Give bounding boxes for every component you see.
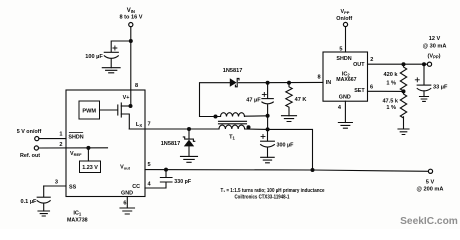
svg-text:5: 5 bbox=[148, 162, 151, 168]
label 47uF bbox=[246, 97, 261, 103]
label 5V output bbox=[417, 179, 444, 192]
svg-text:2: 2 bbox=[59, 142, 62, 148]
label GND IC2 bbox=[339, 94, 351, 100]
junction LX/diode bbox=[187, 127, 191, 131]
svg-text:On/off: On/off bbox=[336, 16, 352, 22]
svg-text:7: 7 bbox=[148, 122, 151, 128]
transformer T1 primary winding bbox=[219, 125, 245, 129]
ground below 300uF bbox=[261, 157, 275, 163]
svg-text:5 V on/off: 5 V on/off bbox=[17, 129, 42, 135]
junction rail/330pF bbox=[164, 168, 168, 172]
label 330pF bbox=[174, 179, 192, 185]
wire to 1.23V box bbox=[87, 148, 89, 162]
node 5V on/off terminal bbox=[35, 137, 39, 141]
pin 8 label IC1 bbox=[135, 83, 138, 89]
transformer T1 secondary winding bbox=[221, 113, 245, 117]
wire branch to C 100uF bbox=[111, 41, 131, 52]
wire LX to transformer bbox=[129, 128, 219, 130]
wire pin3 SS bbox=[44, 185, 66, 187]
svg-text:T₁ = 1:1.5 turns ratio; 100 µH: T₁ = 1:1.5 turns ratio; 100 µH primary i… bbox=[221, 188, 325, 194]
node VPP on/off terminal bbox=[343, 22, 347, 26]
1.23V reference box bbox=[80, 161, 101, 173]
svg-text:47.5 k: 47.5 k bbox=[382, 99, 398, 105]
svg-text:6: 6 bbox=[123, 201, 126, 207]
wire 5V node loop down bbox=[268, 129, 313, 170]
PWM box bbox=[79, 101, 100, 119]
IC1 pin4 CC label bbox=[132, 181, 151, 190]
svg-text:47 µF: 47 µF bbox=[246, 97, 261, 103]
wire secondary left up to diode loop bbox=[200, 83, 230, 117]
svg-text:1: 1 bbox=[59, 132, 62, 138]
svg-text:IC1: IC1 bbox=[73, 211, 82, 217]
label IN bbox=[326, 80, 331, 86]
svg-text:MAX667: MAX667 bbox=[336, 77, 356, 83]
svg-text:IN: IN bbox=[326, 80, 331, 86]
ground below 33uF bbox=[420, 97, 429, 102]
svg-text:CC: CC bbox=[132, 184, 140, 190]
capacitor 33uF bbox=[415, 64, 431, 96]
label LX pin7 bbox=[136, 122, 151, 128]
junction drain/V+ bbox=[129, 104, 133, 108]
svg-text:8 to 16 V: 8 to 16 V bbox=[119, 15, 142, 21]
label SS bbox=[69, 184, 77, 190]
svg-text:GND: GND bbox=[121, 190, 133, 196]
svg-text:SeekIC.com: SeekIC.com bbox=[400, 216, 458, 227]
wire secondary right to 47uF line bbox=[245, 115, 268, 117]
label 300uF bbox=[277, 142, 295, 148]
svg-text:2: 2 bbox=[370, 57, 373, 63]
svg-text:330 pF: 330 pF bbox=[174, 179, 192, 185]
capacitor 47uF bbox=[262, 83, 273, 130]
op-amp U2 IC2 MAX667 box bbox=[323, 52, 368, 101]
svg-text:300 µF: 300 µF bbox=[277, 142, 295, 148]
transformer T1 core bbox=[219, 121, 247, 124]
ground below 0.1uF bbox=[38, 211, 50, 216]
label 47.5k 1% bbox=[382, 99, 398, 112]
label IC1 MAX738 bbox=[67, 211, 88, 224]
svg-text:SET: SET bbox=[354, 88, 365, 94]
resistor 47.5k bbox=[400, 91, 406, 129]
junction VREF/1.23V bbox=[86, 146, 90, 150]
op-amp U1 IC1 MAX738 box bbox=[66, 90, 145, 197]
svg-text:T1: T1 bbox=[229, 135, 235, 141]
label SET bbox=[354, 88, 365, 94]
junction rail/47K bbox=[287, 81, 291, 85]
diode D2 1N5817 to ground bbox=[183, 129, 194, 156]
label 12V output bbox=[423, 36, 447, 59]
watermark SeekIC.com bbox=[400, 216, 458, 227]
svg-text:0.1 µF: 0.1 µF bbox=[21, 199, 38, 205]
svg-text:5: 5 bbox=[339, 46, 342, 52]
junction 300uF bbox=[266, 127, 270, 131]
label VPP on/off bbox=[336, 9, 352, 22]
label T1 bbox=[229, 135, 235, 141]
wire pin1 SHDN bbox=[39, 138, 66, 140]
capacitor 330pF CC bbox=[145, 170, 172, 188]
svg-text:MAX738: MAX738 bbox=[67, 217, 88, 223]
svg-text:Ref. out: Ref. out bbox=[20, 153, 40, 159]
svg-text:4: 4 bbox=[338, 105, 342, 111]
pin 3 label bbox=[55, 180, 58, 186]
label 1N5817 (D1) bbox=[223, 68, 243, 74]
wire primary right to junction bbox=[245, 128, 268, 130]
svg-text:47 K: 47 K bbox=[295, 97, 307, 103]
svg-text:LX: LX bbox=[136, 122, 142, 128]
IC1 GND pin6 bbox=[121, 190, 133, 206]
wire VPP to pin5 bbox=[345, 27, 347, 52]
svg-text:1 %: 1 % bbox=[386, 105, 396, 111]
pin 5 label IC2 bbox=[339, 46, 342, 52]
wire SET to divider bbox=[368, 90, 404, 92]
pin 4 label IC2 bbox=[338, 105, 342, 111]
junction rail/47uF bbox=[266, 81, 270, 85]
svg-text:OUT: OUT bbox=[353, 62, 365, 68]
junction OUT/420k bbox=[402, 62, 406, 66]
svg-text:@ 200 mA: @ 200 mA bbox=[417, 186, 444, 192]
svg-text:420 k: 420 k bbox=[384, 72, 399, 78]
svg-text:5 V: 5 V bbox=[426, 179, 435, 185]
phase dot secondary bbox=[214, 115, 218, 119]
svg-text:SHDN: SHDN bbox=[336, 56, 351, 62]
svg-text:PWM: PWM bbox=[82, 108, 96, 114]
svg-text:SS: SS bbox=[69, 184, 77, 190]
label V+ bbox=[123, 95, 130, 101]
svg-text:GND: GND bbox=[339, 94, 351, 100]
label OUT bbox=[353, 62, 365, 68]
resistor 420k bbox=[400, 64, 406, 91]
capacitor 300uF bbox=[261, 129, 275, 157]
node 12V terminal bbox=[427, 62, 431, 66]
wire GND pin6 bbox=[126, 197, 128, 209]
svg-text:Vout: Vout bbox=[120, 164, 130, 170]
svg-text:@ 30 mA: @ 30 mA bbox=[423, 44, 447, 50]
ground below 47.5k bbox=[398, 129, 409, 135]
label SHDN IC2 bbox=[336, 56, 351, 62]
capacitor 100uF bbox=[104, 46, 118, 68]
wire OUT to 12V terminal bbox=[368, 63, 428, 65]
label 420k 1% bbox=[384, 72, 399, 87]
svg-text:V+: V+ bbox=[123, 95, 130, 101]
label IC2 MAX667 bbox=[336, 71, 356, 83]
junction VIN/100uF bbox=[129, 39, 133, 43]
ground below IC1 bbox=[120, 208, 135, 214]
svg-text:33 µF: 33 µF bbox=[433, 85, 448, 91]
wire V+ down inside box bbox=[130, 90, 132, 106]
label 5V on/off bbox=[17, 129, 42, 135]
svg-text:VPP: VPP bbox=[341, 9, 350, 15]
junction divider bbox=[402, 89, 406, 93]
pin 2 label IC2 bbox=[370, 57, 373, 63]
resistor 47K bbox=[286, 83, 292, 116]
label 100uF bbox=[85, 54, 103, 60]
pin 1 label bbox=[59, 132, 62, 138]
capacitor 0.1uF bbox=[37, 186, 50, 211]
svg-text:100 µF: 100 µF bbox=[85, 54, 103, 60]
wire pin2 VREF bbox=[39, 147, 108, 149]
node VIN terminal bbox=[129, 23, 133, 27]
label 0.1uF bbox=[21, 199, 38, 205]
svg-text:1 %: 1 % bbox=[386, 81, 396, 87]
wire VOUT 5V rail bbox=[145, 170, 429, 172]
phase dot primary bbox=[247, 125, 251, 129]
svg-text:3: 3 bbox=[55, 180, 58, 186]
pin 8 label IC2 bbox=[317, 75, 320, 81]
svg-text:1N5817: 1N5817 bbox=[223, 68, 243, 74]
svg-text:1.23 V: 1.23 V bbox=[82, 165, 98, 171]
node VIN label bbox=[119, 8, 142, 21]
wire VIN vertical to IC1 pin8 bbox=[130, 27, 132, 90]
svg-text:1N5817: 1N5817 bbox=[161, 141, 181, 147]
transistor Q1 MOSFET bbox=[118, 103, 131, 129]
label 47K bbox=[295, 97, 307, 103]
label VREF bbox=[70, 151, 82, 157]
wire GND pin4 bbox=[344, 101, 346, 122]
node 5V output terminal bbox=[428, 169, 432, 173]
svg-text:6: 6 bbox=[370, 85, 373, 91]
pin 6 label IC2 bbox=[370, 85, 373, 91]
junction OUT/33uF bbox=[422, 62, 426, 66]
label 1N5817 (D2) bbox=[161, 141, 181, 147]
junction rail/5Vnode bbox=[311, 168, 315, 172]
label Ref out bbox=[20, 153, 40, 159]
svg-text:12 V: 12 V bbox=[429, 36, 441, 42]
pin 2 label bbox=[59, 142, 62, 148]
svg-text:SHDN: SHDN bbox=[68, 134, 83, 140]
svg-text:8: 8 bbox=[135, 83, 138, 89]
svg-text:VIN: VIN bbox=[127, 8, 135, 14]
ground below 100uF bbox=[102, 68, 120, 73]
diode D1 1N5817 top bbox=[230, 78, 239, 87]
wire PWM to gate bbox=[100, 109, 118, 111]
label SHDN IC1 bbox=[68, 134, 83, 140]
wire top rail to IC2 IN bbox=[239, 81, 323, 83]
svg-text:VREF: VREF bbox=[70, 151, 82, 157]
IC1 pin5 VOUT label bbox=[120, 162, 150, 170]
svg-text:Coiltronics CTX33-11948-1: Coiltronics CTX33-11948-1 bbox=[235, 194, 290, 200]
svg-text:4: 4 bbox=[148, 181, 152, 187]
junction secondary/47uF bbox=[266, 114, 270, 118]
ground below IC2 bbox=[338, 123, 352, 129]
ground below D2 bbox=[181, 156, 198, 162]
note T1 turns ratio bbox=[221, 188, 325, 200]
svg-text:8: 8 bbox=[317, 75, 320, 81]
ground below 47K bbox=[282, 116, 297, 122]
node Ref out terminal bbox=[34, 146, 38, 150]
label 33uF bbox=[433, 85, 448, 91]
svg-text:(VPP): (VPP) bbox=[427, 53, 440, 59]
